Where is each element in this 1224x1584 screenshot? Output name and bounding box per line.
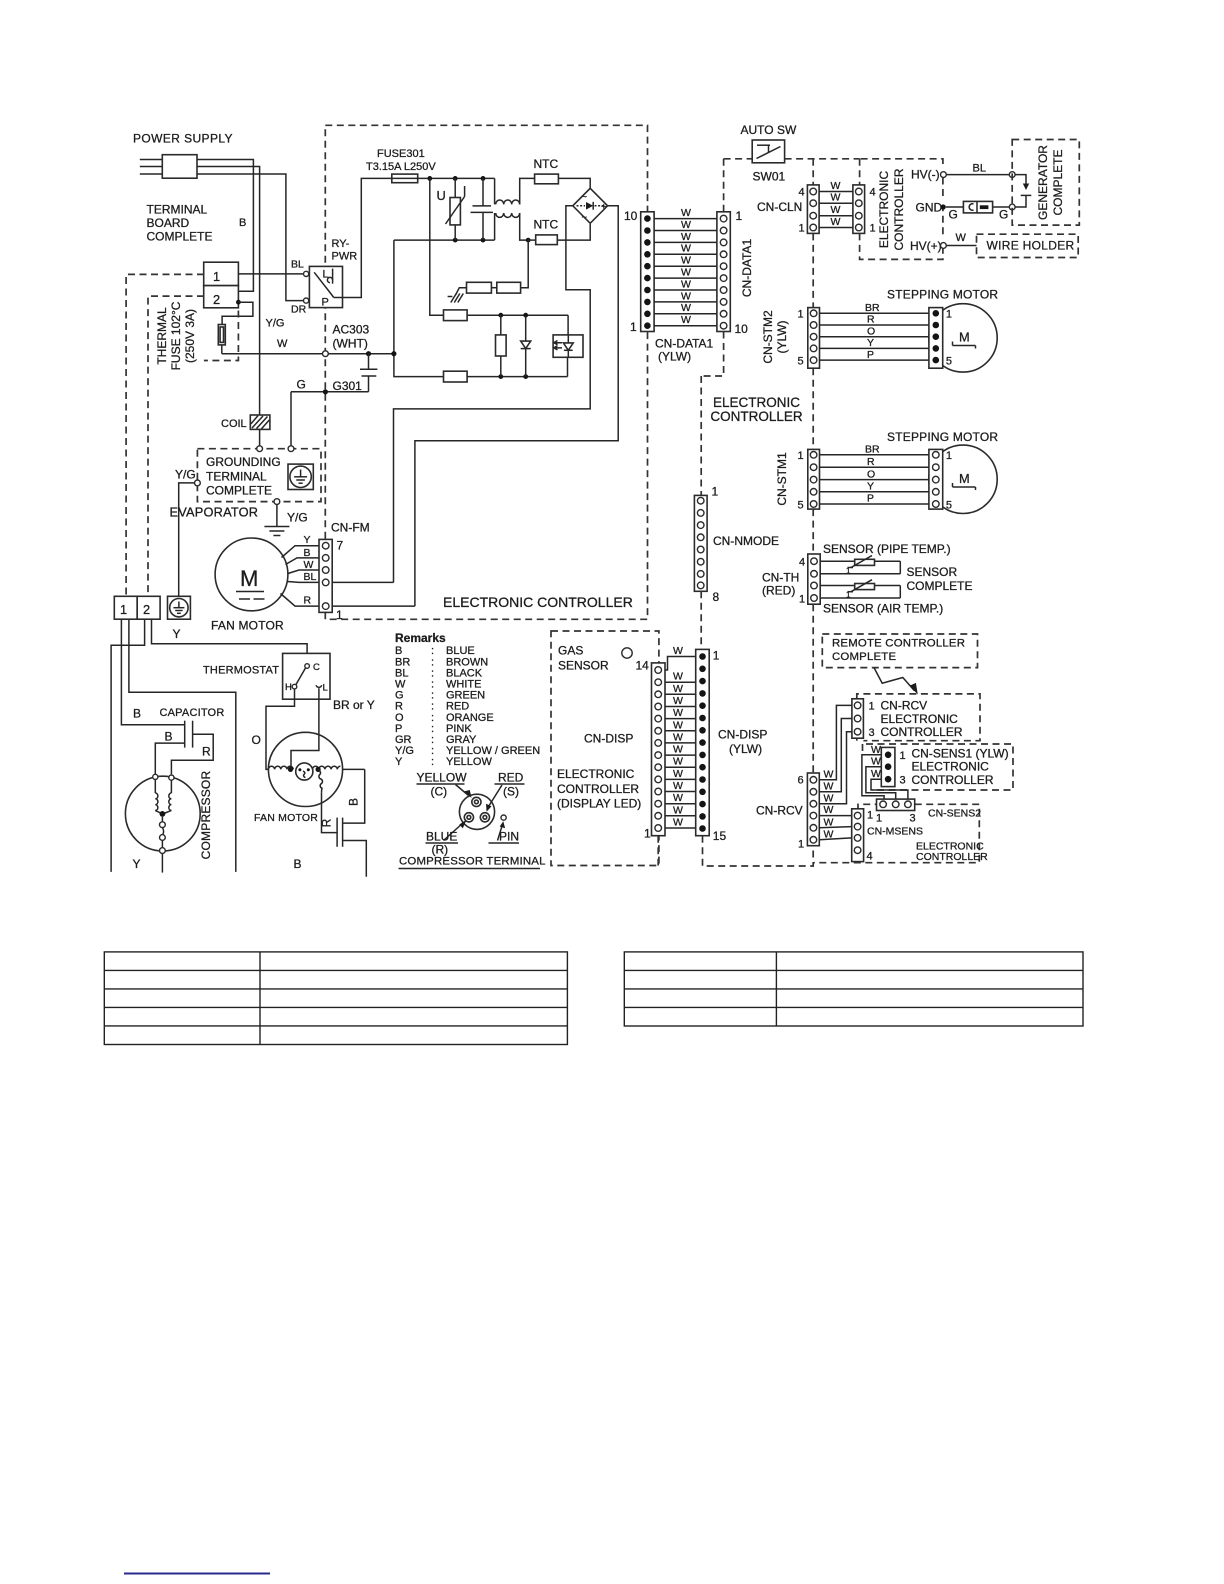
svg-text:CN-DISP: CN-DISP — [718, 728, 767, 742]
wire from plug to relay DR — [197, 174, 304, 301]
svg-text:R: R — [304, 595, 312, 607]
relay RY-PWR — [304, 266, 343, 308]
dashed edge below CN-DATA1 harness to board edge — [701, 332, 723, 496]
svg-text:1: 1 — [798, 450, 804, 462]
svg-text:ELECTRONIC: ELECTRONIC — [912, 760, 990, 774]
label GND — [916, 201, 943, 215]
svg-text:CAPACITOR: CAPACITOR — [160, 707, 225, 719]
NTC (top) label — [534, 157, 559, 171]
svg-text:COMPRESSOR TERMINAL: COMPRESSOR TERMINAL — [399, 856, 546, 868]
svg-text:U: U — [437, 188, 446, 203]
terminal block 2 — [137, 596, 160, 619]
svg-text:4: 4 — [867, 851, 873, 863]
svg-text:W: W — [277, 338, 288, 350]
svg-text:TERMINAL: TERMINAL — [206, 469, 267, 483]
svg-text:WIRE HOLDER: WIRE HOLDER — [987, 239, 1075, 253]
svg-text:W: W — [831, 216, 841, 228]
wire thermostat H to fan motor O — [266, 689, 295, 770]
label CN-DISP (board) — [584, 732, 633, 746]
label BR or Y — [333, 698, 375, 712]
label ELECTRONIC CONTROLLER (DISPLAY LED) — [557, 767, 641, 811]
switch SW01 — [752, 140, 784, 163]
svg-text:EVAPORATOR: EVAPORATOR — [170, 505, 259, 520]
svg-text:CN-TH: CN-TH — [762, 571, 799, 585]
svg-text:RY-: RY- — [332, 238, 350, 250]
svg-text:W: W — [824, 816, 834, 828]
svg-text:4: 4 — [870, 187, 876, 199]
svg-text:SENSOR: SENSOR — [558, 659, 609, 673]
resistor R-a — [467, 282, 492, 293]
svg-text:W: W — [681, 231, 691, 243]
svg-text:O: O — [252, 733, 261, 747]
wire 1a down — [121, 619, 184, 725]
ground terminal block Y — [168, 596, 191, 619]
chassis ground — [448, 288, 467, 303]
svg-text:BOARD: BOARD — [147, 216, 190, 230]
svg-text:BL: BL — [304, 571, 317, 583]
svg-text:W: W — [681, 243, 691, 255]
svg-text:FAN MOTOR: FAN MOTOR — [254, 812, 318, 824]
svg-text:THERMOSTAT: THERMOSTAT — [203, 665, 279, 677]
connector CN-STM2 board side — [798, 308, 820, 369]
label G301 — [333, 379, 363, 393]
svg-text:CN-RCV: CN-RCV — [756, 804, 803, 818]
svg-text:W: W — [681, 278, 691, 290]
electronic controller main dashed box — [325, 125, 647, 619]
svg-text:B: B — [165, 730, 173, 744]
label R (capacitor) — [202, 745, 211, 759]
terminal evaporator — [274, 499, 280, 505]
label B (rotated) — [347, 798, 361, 806]
svg-text:Y: Y — [867, 481, 874, 493]
svg-text:FAN MOTOR: FAN MOTOR — [211, 619, 284, 633]
stepping motor (upper) body — [929, 304, 997, 372]
label G left — [949, 208, 958, 222]
junction G on box edge — [323, 389, 328, 394]
svg-text:1: 1 — [630, 320, 637, 334]
svg-text:SENSOR (PIPE TEMP.): SENSOR (PIPE TEMP.) — [823, 542, 951, 556]
wire G down to grounding terminal — [290, 392, 292, 447]
svg-text:BR: BR — [865, 444, 880, 456]
leader red to S — [486, 785, 502, 812]
connector CN-CLN harness side — [853, 185, 876, 235]
svg-text:Y/G: Y/G — [175, 468, 196, 482]
svg-text:(DISPLAY LED): (DISPLAY LED) — [557, 797, 641, 811]
connector CN-MSENS — [852, 809, 864, 862]
power supply label — [133, 132, 233, 146]
fan motor (evaporator) — [215, 538, 288, 611]
wire relay P to fuse — [334, 178, 392, 297]
svg-text:2: 2 — [143, 602, 150, 617]
svg-text:CN-MSENS: CN-MSENS — [867, 826, 923, 838]
label 4 CN-MSENS — [867, 851, 873, 863]
svg-text:BR: BR — [865, 302, 880, 314]
svg-text:W: W — [956, 232, 967, 244]
wires CN-DISP — [665, 645, 703, 829]
svg-text:TERMINAL: TERMINAL — [147, 203, 208, 217]
terminal Y/G left — [195, 480, 201, 486]
svg-text:R: R — [320, 818, 334, 827]
svg-text:(YLW): (YLW) — [658, 350, 691, 364]
svg-text:C: C — [313, 662, 320, 673]
dashed edge above CN-DATA1 harness to SW01 — [724, 159, 753, 212]
label G — [297, 378, 306, 392]
svg-text:HV(-): HV(-) — [911, 168, 940, 182]
svg-text:W: W — [673, 731, 683, 743]
svg-text:Y/G: Y/G — [266, 318, 285, 330]
label CN-NMODE — [713, 534, 779, 548]
svg-text:10: 10 — [735, 322, 749, 336]
svg-text:1: 1 — [946, 450, 952, 462]
svg-text:3: 3 — [869, 727, 875, 739]
svg-text:BLUE: BLUE — [426, 830, 457, 844]
connector stepping motor (lower) — [929, 449, 952, 511]
svg-text:3: 3 — [900, 775, 906, 787]
svg-text:10: 10 — [624, 209, 638, 223]
remote controller complete box — [822, 634, 977, 668]
wire 6pin to CN-MSENS pin1 — [819, 815, 851, 817]
label GROUNDING TERMINAL COMPLETE — [206, 455, 281, 498]
label COIL — [221, 418, 247, 430]
svg-text:G: G — [949, 208, 958, 222]
NTC (top) — [535, 174, 591, 188]
label 1 CN-RCV — [869, 701, 875, 713]
svg-text:B: B — [347, 798, 361, 806]
wires into CN-SENS1 — [862, 744, 908, 799]
label GENERATOR COMPLETE (rotated) — [1036, 145, 1065, 220]
svg-text:COMPLETE: COMPLETE — [832, 651, 896, 663]
svg-text:W: W — [673, 768, 683, 780]
varistor U — [446, 178, 465, 240]
relay RY-PWR label — [332, 238, 358, 263]
svg-text:5: 5 — [946, 356, 952, 368]
svg-text:Y: Y — [867, 337, 874, 349]
svg-text:CN-STM1: CN-STM1 — [775, 452, 789, 506]
svg-text:ELECTRONIC: ELECTRONIC — [557, 767, 635, 781]
label FAN MOTOR (evaporator) — [211, 619, 284, 633]
label 14 — [636, 659, 650, 673]
svg-text:SENSOR: SENSOR — [907, 565, 958, 579]
svg-text:Remarks: Remarks — [395, 631, 446, 645]
svg-text:1: 1 — [799, 594, 805, 606]
svg-text:CN-DATA1: CN-DATA1 — [655, 337, 714, 351]
compressor — [125, 774, 200, 853]
svg-text:+: + — [601, 202, 607, 213]
svg-text:CN-SENS2: CN-SENS2 — [928, 808, 981, 820]
capacitor X — [471, 178, 494, 240]
leader pin — [498, 821, 506, 840]
label 1 CN-SENS1 — [900, 750, 906, 762]
terminal HV(-) — [941, 172, 947, 178]
svg-text:ELECTRONIC CONTROLLER: ELECTRONIC CONTROLLER — [443, 594, 633, 610]
label AUTO SW — [741, 123, 797, 137]
electronic controller dashed box (generator side) — [860, 159, 943, 260]
wires 6pin W labels — [824, 768, 834, 840]
svg-text:W: W — [681, 267, 691, 279]
svg-text:NTC: NTC — [534, 218, 559, 232]
label 3 CN-SENS1 — [900, 775, 906, 787]
svg-text:1: 1 — [846, 567, 851, 576]
svg-text:W: W — [673, 683, 683, 695]
label 3 CN-RCV — [869, 727, 875, 739]
svg-text:FUSE301: FUSE301 — [377, 148, 425, 160]
svg-text:YELLOW: YELLOW — [446, 756, 492, 768]
fuse FUSE301 — [392, 174, 418, 183]
bridge rectifier — [573, 188, 608, 223]
svg-text:B: B — [304, 547, 311, 559]
svg-text:CONTROLLER: CONTROLLER — [557, 782, 639, 796]
resistor R-b — [491, 240, 528, 293]
connector CN-SENS1 — [881, 747, 895, 786]
wire 6pin to CN-RCV pin2 — [819, 719, 852, 792]
label CN-RCV — [881, 699, 963, 740]
svg-text:STEPPING MOTOR: STEPPING MOTOR — [887, 430, 998, 444]
dashed board edge CN-STM1 to CN-TH — [812, 509, 814, 554]
table right — [624, 952, 1083, 1026]
svg-text:GND: GND — [916, 201, 943, 215]
dashed board edge below CN-NMODE — [700, 591, 702, 649]
svg-text:B: B — [133, 707, 141, 721]
svg-text:W: W — [304, 559, 314, 571]
leader blue to R — [444, 820, 467, 841]
connector CN-TH — [799, 554, 820, 606]
label FAN MOTOR (condenser) — [254, 812, 318, 824]
connector CN-DISP harness side — [696, 649, 727, 844]
resistor vertical — [496, 315, 507, 376]
terminal board complete block — [204, 262, 239, 308]
ptc starter (mosfet style) — [337, 769, 366, 876]
svg-text:B: B — [294, 857, 302, 871]
svg-text:P: P — [867, 349, 874, 361]
svg-text:P: P — [322, 297, 329, 309]
svg-text:POWER SUPPLY: POWER SUPPLY — [133, 132, 233, 146]
capacitor G301 — [291, 351, 377, 392]
wire Y/G to ground box — [179, 483, 195, 596]
label B (wire 1) — [133, 707, 141, 721]
svg-text:CONTROLLER: CONTROLLER — [881, 725, 963, 739]
svg-text:BL: BL — [973, 163, 986, 175]
wire terminal 2 to thermal fuse — [222, 302, 253, 324]
svg-text:W: W — [824, 792, 834, 804]
label YELLOW (C) — [417, 771, 468, 799]
sensor pipe temp thermistor — [820, 556, 900, 576]
pointer arrow to CN-RCV — [874, 668, 918, 695]
generator terminals — [1009, 172, 1015, 210]
grounding terminal complete dashed box — [197, 449, 321, 502]
wire capacitor left to compressor M — [155, 743, 184, 774]
wire thermostat L to fan winding — [291, 688, 319, 769]
svg-text:1: 1 — [869, 701, 875, 713]
generator complete dashed box — [1012, 140, 1079, 226]
pin terminal — [501, 815, 506, 820]
svg-text:W: W — [673, 804, 683, 816]
svg-text:5: 5 — [798, 356, 804, 368]
wire 6pin to CN-RCV pin1 — [819, 705, 852, 779]
svg-text:CN-NMODE: CN-NMODE — [713, 534, 779, 548]
svg-text:W: W — [824, 780, 834, 792]
svg-text:W: W — [681, 314, 691, 326]
svg-text:W: W — [824, 768, 834, 780]
svg-text:COMPLETE: COMPLETE — [206, 484, 272, 498]
label THERMOSTAT — [203, 665, 279, 677]
wire 6pin to CN-MSENS pin3 — [819, 838, 851, 840]
label STEPPING MOTOR (upper) — [887, 288, 998, 302]
label RED (S) — [495, 771, 525, 799]
svg-text:1: 1 — [799, 223, 805, 235]
svg-text:1: 1 — [644, 827, 651, 841]
svg-text:1: 1 — [900, 750, 906, 762]
svg-text:1: 1 — [870, 223, 876, 235]
svg-text:1: 1 — [946, 309, 952, 321]
varistor U label — [437, 188, 446, 203]
wire W to wire holder — [946, 245, 976, 247]
fan motor (condenser) — [268, 732, 342, 806]
label BL — [291, 259, 304, 271]
label CN-STM2 (YLW) rotated — [761, 310, 789, 364]
wire bridge plus down — [415, 206, 618, 606]
svg-text:1: 1 — [712, 485, 719, 499]
resistor R3 — [444, 310, 569, 321]
electronic controller label (main) — [443, 594, 633, 610]
svg-text:(YLW): (YLW) — [729, 742, 762, 756]
connector CN-CLN board side — [799, 185, 820, 235]
thermal fuse 102C — [218, 325, 225, 354]
wires CN-CLN — [819, 180, 853, 228]
label PIN — [489, 830, 520, 844]
terminal HV(+) — [941, 243, 947, 249]
label Y (ground block) — [173, 627, 181, 641]
terminal block 1 — [114, 596, 137, 619]
svg-text:W: W — [831, 180, 841, 192]
label SW01 — [753, 170, 786, 184]
thermal fuse label (rotated) — [155, 301, 197, 370]
svg-text:W: W — [673, 756, 683, 768]
svg-text:H: H — [285, 682, 292, 693]
svg-text:DR: DR — [291, 304, 307, 316]
svg-text:~: ~ — [582, 212, 588, 223]
electronic controller dashed box (bottom right) — [813, 804, 979, 862]
svg-text:G: G — [297, 378, 306, 392]
label B (bottom) — [294, 857, 302, 871]
label COMPRESSOR TERMINAL — [399, 856, 546, 869]
wire 2b down to thermostat — [152, 619, 308, 663]
svg-text:M: M — [959, 330, 970, 345]
label CN-RCV (board side) — [756, 804, 803, 818]
svg-text:O: O — [867, 325, 875, 337]
wire W neutral — [222, 353, 394, 355]
connector CN-DISP board side — [644, 663, 665, 841]
label SENSOR COMPLETE — [907, 565, 973, 593]
svg-text:W: W — [673, 695, 683, 707]
svg-text:CN-CLN: CN-CLN — [757, 200, 802, 214]
svg-text:8: 8 — [713, 590, 720, 604]
wires CN-DATA1 — [654, 207, 717, 326]
svg-text:GROUNDING: GROUNDING — [206, 455, 281, 469]
wire CN-FM pin1 R — [332, 605, 415, 607]
svg-text:W: W — [831, 192, 841, 204]
label Y (compressor) — [133, 857, 141, 871]
svg-text:1: 1 — [876, 813, 882, 825]
connector CN-DATA1 board side — [624, 209, 654, 334]
label Y/G — [266, 318, 285, 330]
svg-text:STEPPING MOTOR: STEPPING MOTOR — [887, 288, 998, 302]
label CAPACITOR — [160, 707, 225, 719]
label SENSOR (PIPE TEMP.) — [823, 542, 951, 556]
svg-text:W: W — [824, 804, 834, 816]
label W — [277, 338, 288, 350]
svg-text:1: 1 — [798, 839, 804, 851]
svg-text:REMOTE CONTROLLER: REMOTE CONTROLLER — [832, 638, 965, 650]
svg-text:W: W — [681, 219, 691, 231]
svg-text:Y: Y — [304, 534, 311, 546]
wire capacitor right to compressor A — [171, 734, 213, 774]
svg-text:L: L — [323, 683, 328, 694]
svg-text:W: W — [673, 817, 683, 829]
leader yellow to C — [456, 785, 472, 799]
svg-text:T3.15A L250V: T3.15A L250V — [366, 161, 436, 173]
connector stepping motor (upper) — [929, 308, 952, 369]
svg-text:CONTROLLER: CONTROLLER — [912, 773, 994, 787]
dashed board edge CN-CLN to CN-STM2 — [812, 233, 814, 307]
svg-text:CN-FM: CN-FM — [331, 521, 370, 535]
dashed edges below CN-DISP — [658, 836, 813, 866]
label 1 CN-MSENS — [867, 810, 873, 822]
svg-text:CN-RCV: CN-RCV — [881, 699, 928, 713]
label W (wire holder) — [956, 232, 967, 244]
svg-text:PWR: PWR — [332, 251, 358, 263]
svg-text:W: W — [673, 719, 683, 731]
svg-text:1: 1 — [867, 810, 873, 822]
resistor R4 — [391, 351, 567, 382]
top AC rail — [418, 176, 495, 204]
wire holder box — [977, 234, 1079, 257]
compressor terminal circle — [459, 794, 494, 829]
footer rule (blue) — [124, 1573, 270, 1575]
svg-text:HV(+): HV(+) — [910, 239, 942, 253]
svg-text:(YLW): (YLW) — [775, 320, 789, 353]
svg-text:Y: Y — [133, 857, 141, 871]
diode zener — [521, 315, 531, 376]
svg-text:(C): (C) — [431, 785, 448, 799]
label B — [239, 217, 246, 229]
svg-text:W: W — [681, 255, 691, 267]
wire B from plug to terminal 2 — [197, 160, 253, 292]
dashed board edge CN-STM2 to CN-STM1 — [812, 368, 814, 449]
connector CN-NMODE — [694, 485, 719, 605]
connector CN-FM — [319, 539, 344, 623]
label R (rotated) — [320, 818, 334, 827]
label ELECTRONIC CONTROLLER (rotated, generator side) — [877, 168, 906, 250]
svg-text::: : — [431, 756, 434, 768]
label COMPRESSOR (rotated) — [199, 771, 213, 860]
svg-text:PIN: PIN — [499, 830, 519, 844]
label CN-CLN — [757, 200, 802, 214]
terminal GND — [941, 204, 946, 209]
label AC303 (WHT) — [333, 323, 370, 351]
label CN-SENS1 (YLW) — [912, 747, 1009, 788]
label CN-FM — [331, 521, 370, 535]
svg-text:W: W — [673, 780, 683, 792]
svg-text:NTC: NTC — [534, 157, 559, 171]
svg-text:G: G — [999, 208, 1008, 222]
svg-text:W: W — [673, 792, 683, 804]
svg-text:(250V 3A): (250V 3A) — [183, 309, 197, 363]
label HV(-) — [911, 168, 940, 182]
wire CN-FM pin4 BL — [332, 581, 393, 583]
svg-text:W: W — [673, 671, 683, 683]
connector feed 6pin — [798, 773, 820, 851]
svg-text:W: W — [681, 302, 691, 314]
